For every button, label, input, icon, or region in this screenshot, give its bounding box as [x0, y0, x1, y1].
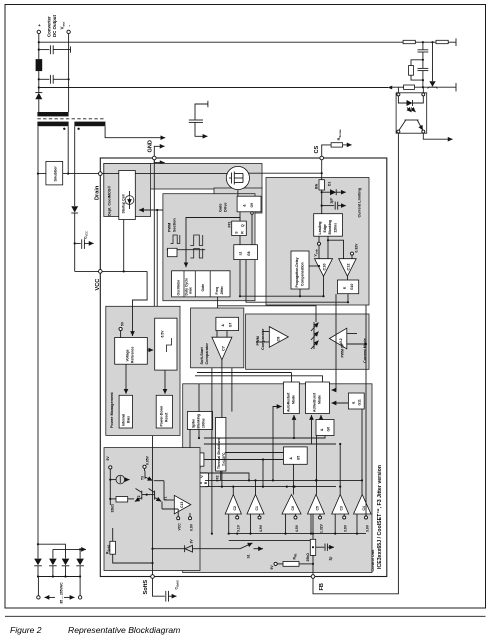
- flipflop FF2: [197, 473, 209, 487]
- capacitor Cy: [207, 101, 209, 107]
- svg-text:FF1: FF1: [228, 221, 232, 227]
- gate G2: [183, 453, 204, 466]
- IC package outline: [100, 158, 387, 577]
- wire FB internal: [312, 514, 314, 575]
- svg-text:Reset: Reset: [164, 412, 168, 422]
- svg-text:Leading: Leading: [318, 222, 322, 235]
- pin SoftS: [151, 575, 155, 579]
- section power management gray box: [106, 306, 180, 435]
- svg-text:≥1: ≥1: [239, 251, 243, 255]
- wire internal gnd rail: [153, 160, 155, 306]
- wire mirror bases: [142, 494, 155, 496]
- wire C3 up: [339, 444, 341, 495]
- svg-text:5V: 5V: [270, 565, 274, 570]
- svg-text:1pF: 1pF: [330, 198, 334, 204]
- diode D2 (aux rectifier): [71, 206, 78, 212]
- svg-text:C1: C1: [255, 506, 259, 510]
- capacitor CSoftS: [153, 578, 165, 596]
- capacitor 2p: [312, 546, 314, 548]
- svg-text:DC Output: DC Output: [52, 15, 57, 37]
- svg-text:Soft-Start: Soft-Start: [200, 346, 204, 364]
- svg-text:5V: 5V: [120, 321, 124, 326]
- svg-text:3.6V: 3.6V: [344, 524, 348, 532]
- wire softstart rails: [211, 368, 213, 534]
- svg-text:Mode: Mode: [318, 395, 322, 404]
- svg-text:C10: C10: [322, 264, 326, 271]
- gate G10: [338, 280, 359, 294]
- resistor 25k: [310, 539, 315, 555]
- svg-text:CSoftS: CSoftS: [175, 580, 180, 589]
- AC terminal N: [78, 596, 81, 599]
- svg-text:T>140°C: T>140°C: [222, 452, 226, 466]
- wire bus 438: [204, 436, 325, 439]
- svg-text:Figure 2: Figure 2: [10, 625, 42, 635]
- comparator C10: [315, 259, 333, 277]
- block voltage reference: [115, 338, 148, 365]
- transformer primary winding: [37, 122, 68, 127]
- svg-text:Blk: Blk: [315, 184, 319, 189]
- wire + column: [38, 34, 40, 60]
- comparator C13: [174, 495, 191, 513]
- svg-text:4.9V: 4.9V: [259, 524, 263, 532]
- section PWM comparator gray box: [246, 314, 369, 369]
- svg-text:Drive: Drive: [224, 203, 228, 213]
- wire GND arrow down: [154, 160, 164, 163]
- bridge diode DB4: [76, 559, 84, 566]
- svg-text:FB: FB: [319, 583, 325, 590]
- capacitor C3a: [422, 42, 424, 49]
- svg-text:Edge: Edge: [323, 224, 327, 232]
- wire GND arrow up: [154, 146, 164, 156]
- wire G10 out bus: [246, 260, 348, 303]
- comparator C6: [282, 495, 301, 515]
- svg-text:Converter: Converter: [46, 16, 51, 37]
- transistor T1: [154, 491, 156, 500]
- oscillator block row: [172, 271, 230, 297]
- wire bus 480: [205, 479, 362, 481]
- wire CS to Rsense: [322, 145, 331, 156]
- wire VR to 6.5V block: [147, 349, 153, 351]
- svg-text:Blanking: Blanking: [196, 414, 200, 428]
- svg-text:max: max: [189, 287, 193, 294]
- svg-text:SoftS: SoftS: [143, 580, 149, 595]
- capacitor Cout2: [39, 78, 50, 80]
- flipflop FF1: [232, 221, 247, 235]
- section control unit gray box: [183, 384, 372, 573]
- svg-text:Q: Q: [241, 224, 245, 227]
- svg-text:CVCC: CVCC: [84, 231, 89, 239]
- wire burst line: [332, 294, 337, 390]
- svg-text:Mode: Mode: [292, 395, 296, 404]
- wire up to autorestart: [273, 407, 282, 481]
- svg-text:PWM OP: PWM OP: [341, 343, 345, 358]
- bridge diode DB3: [62, 559, 70, 566]
- terminal + (DC output): [37, 30, 40, 33]
- wire 6.5V to PDR: [164, 370, 166, 394]
- capacitor C3b: [418, 67, 429, 69]
- AC terminal L: [37, 596, 40, 599]
- svg-text:Reference: Reference: [131, 346, 135, 363]
- svg-text:Power-Down: Power-Down: [159, 406, 163, 427]
- svg-text:Gate: Gate: [201, 284, 205, 292]
- resistor RFB: [277, 563, 283, 565]
- svg-text:G6: G6: [327, 427, 331, 432]
- wire softs internal: [152, 436, 154, 575]
- gate G7: [216, 317, 239, 330]
- wire snubber node: [38, 173, 100, 175]
- svg-text:Startup Cell: Startup Cell: [122, 194, 126, 213]
- wire G5 inputs: [225, 452, 284, 454]
- wire thermal to G2: [189, 429, 191, 453]
- comparator C12: [339, 259, 357, 277]
- wire C10 out bus: [240, 276, 324, 296]
- wire primary right to drain: [67, 126, 69, 173]
- svg-text:G8: G8: [247, 251, 251, 256]
- svg-text:Snubber: Snubber: [54, 166, 58, 182]
- wire top rail: [39, 41, 403, 43]
- transformer secondary winding: [37, 112, 68, 116]
- svg-text:3V: 3V: [190, 539, 194, 544]
- gate G5: [284, 447, 308, 464]
- svg-text:-: -: [67, 25, 72, 27]
- svg-text:AutoRestart: AutoRestart: [287, 392, 291, 412]
- pin Drain: [99, 172, 103, 176]
- zener 3V: [153, 548, 186, 550]
- wire osc sync down: [156, 210, 158, 318]
- node Vcsth: [318, 236, 320, 259]
- bridge rectifier top node: [37, 543, 39, 545]
- svg-text:G7: G7: [229, 323, 233, 328]
- wire activeburst out: [320, 415, 322, 420]
- wire startup to VCC: [123, 220, 125, 272]
- comparator C2: [225, 495, 241, 515]
- bridge diode DB2: [49, 559, 57, 566]
- svg-text:PWM: PWM: [168, 223, 172, 232]
- svg-text:0.32V: 0.32V: [354, 243, 358, 253]
- wire bus 540: [229, 539, 313, 541]
- opamp PWM OP: [329, 328, 346, 349]
- switch S1: [200, 548, 241, 550]
- footer rule: [5, 615, 486, 617]
- wire spike blanking down: [198, 429, 200, 438]
- node 0.32V: [351, 252, 354, 255]
- node 0.05V: [143, 465, 146, 468]
- resistor RSoftS: [110, 541, 116, 554]
- wire comparator bottom bus: [229, 533, 366, 535]
- wire drain internal: [102, 173, 227, 175]
- block autorestart mode: [284, 382, 300, 414]
- block UVLO 6.5V: [155, 318, 177, 370]
- node 5V (FB): [274, 562, 277, 565]
- svg-text:C13: C13: [180, 502, 184, 508]
- pin CS: [320, 156, 324, 160]
- wire softstart C7 out: [221, 360, 223, 418]
- svg-text:G10: G10: [350, 283, 354, 290]
- comparator C8: [269, 327, 288, 348]
- svg-text:C4: C4: [362, 506, 366, 510]
- svg-text:Propagation-Delay: Propagation-Delay: [295, 257, 299, 287]
- opto LED: [398, 96, 406, 103]
- svg-text:5V: 5V: [106, 456, 110, 461]
- comparator C5: [308, 495, 325, 515]
- svg-text:G9: G9: [250, 203, 254, 208]
- wire primary left to bridge: [37, 126, 39, 544]
- block thermal shutdown: [216, 418, 226, 472]
- comparator C1: [247, 495, 264, 515]
- svg-text:Freq: Freq: [215, 287, 219, 294]
- gate G12: [185, 475, 195, 486]
- block leading edge blanking: [314, 214, 343, 237]
- svg-text:Spike: Spike: [191, 419, 195, 428]
- svg-text:RSense: RSense: [337, 129, 342, 140]
- svg-text:Vout: Vout: [59, 22, 65, 30]
- svg-text:3.0V: 3.0V: [365, 524, 369, 532]
- inductor L1: [36, 59, 43, 71]
- svg-text:Drain: Drain: [95, 185, 101, 200]
- wire up to G5: [262, 460, 264, 487]
- wire G9-FF1-G8: [239, 212, 241, 221]
- node 5V (PM): [119, 327, 122, 330]
- wire osc to softstart: [217, 297, 219, 308]
- svg-text:Thermal Shutdown: Thermal Shutdown: [217, 438, 221, 469]
- gate G8: [234, 245, 258, 260]
- oscillator waveform glyphs: [170, 235, 179, 244]
- gate driver G9: [237, 196, 261, 212]
- svg-text:Oscillator: Oscillator: [177, 279, 181, 295]
- startup cell block: [123, 174, 125, 178]
- svg-text:0.05V: 0.05V: [146, 455, 150, 465]
- wire osc ramp to comparator: [218, 306, 316, 322]
- svg-text:0.9V: 0.9V: [190, 523, 194, 531]
- wire - column: [68, 34, 70, 112]
- svg-text:D1: D1: [327, 182, 331, 186]
- label 85..265VAC: [45, 596, 56, 598]
- svg-text:VCC: VCC: [95, 279, 101, 291]
- optocoupler U2: [396, 93, 427, 133]
- wire VCC rail: [75, 270, 147, 272]
- block propagation delay compensation: [291, 251, 309, 289]
- wire propdelay to C10: [309, 265, 319, 267]
- svg-text:ActiveBurst: ActiveBurst: [313, 392, 317, 412]
- resistor R1: [403, 40, 415, 43]
- wire G5 out: [293, 464, 295, 494]
- block power-down reset: [156, 395, 172, 428]
- svg-text:Representative Blockdiagram: Representative Blockdiagram: [68, 625, 180, 635]
- svg-text:G11: G11: [358, 399, 362, 405]
- PWM ramp resistor chain: [311, 323, 319, 332]
- resistor R2: [436, 40, 448, 43]
- svg-text:C12: C12: [346, 264, 350, 271]
- wire VR to internal bias: [125, 364, 127, 394]
- wire opto to CS sense arrow: [423, 133, 452, 139]
- snubber block: [46, 161, 63, 185]
- capacitor Cvcc: [74, 242, 76, 244]
- transistor T3: [144, 471, 146, 479]
- svg-text:G5: G5: [297, 456, 301, 461]
- wire CS internal: [321, 160, 323, 180]
- svg-text:C2: C2: [233, 506, 237, 510]
- svg-text:Depl. CoolMOS®: Depl. CoolMOS®: [108, 186, 112, 216]
- svg-text:Bias: Bias: [126, 416, 130, 423]
- terminal - (DC output): [67, 30, 70, 33]
- transistor T2: [141, 491, 143, 500]
- transformer core: [37, 118, 104, 120]
- wire FET source to CS (behind): [246, 172, 322, 174]
- wire aux left to VCC: [74, 126, 76, 206]
- block activeburst mode: [306, 382, 330, 414]
- pin VCC: [99, 270, 103, 274]
- section soft-start gray box: [191, 308, 244, 368]
- comparator C4: [354, 495, 372, 515]
- svg-text:S1: S1: [247, 554, 251, 558]
- svg-text:Internal: Internal: [121, 414, 125, 426]
- resistor 32k: [116, 497, 128, 502]
- wire startup control arrow: [139, 209, 163, 211]
- svg-text:2p: 2p: [329, 557, 333, 561]
- wire G6 out: [316, 436, 318, 495]
- svg-text:Control Unit: Control Unit: [371, 549, 375, 572]
- pin GND: [153, 156, 157, 160]
- transistor Q1 CoolMOS: [226, 166, 249, 189]
- comparator C3: [332, 495, 349, 515]
- wire g2 out: [192, 466, 194, 473]
- wire x366 rail: [365, 305, 367, 516]
- svg-text:Compensation: Compensation: [300, 262, 304, 286]
- wire FET gate: [237, 190, 239, 197]
- svg-text:25kΩ: 25kΩ: [306, 553, 310, 562]
- svg-text:32kΩ: 32kΩ: [110, 504, 114, 513]
- svg-text:6.5V: 6.5V: [160, 330, 164, 338]
- svg-text:Power Management: Power Management: [110, 392, 114, 428]
- svg-text:C3: C3: [340, 506, 344, 510]
- wire lower rail: [39, 87, 388, 89]
- node 5V (UVLO): [109, 466, 112, 469]
- current source I1: [110, 479, 116, 481]
- svg-text:+: +: [37, 24, 42, 27]
- svg-text:Voltage: Voltage: [126, 349, 130, 361]
- resistor Rsense: [331, 143, 343, 147]
- wire aux right arrow: [105, 126, 165, 138]
- wire autorestart out: [293, 415, 295, 438]
- svg-text:1.32V: 1.32V: [319, 523, 323, 533]
- svg-text:ICE3xxx65J / CoolSET™, F3 Jitt: ICE3xxx65J / CoolSET™, F3 Jitter version: [377, 465, 383, 569]
- resistor Blk: [319, 180, 324, 190]
- wire oscillator to FF1: [186, 218, 240, 268]
- section PWM gray box: [163, 194, 255, 301]
- wire pwm to autorestart: [197, 372, 292, 374]
- svg-text:Jitter: Jitter: [220, 286, 224, 295]
- wire feedback line: [313, 133, 398, 594]
- wire activeburst in: [332, 402, 349, 404]
- gate GD output bubble: [198, 467, 201, 470]
- svg-text:T3: T3: [141, 476, 145, 480]
- svg-text:3.1V: 3.1V: [237, 524, 241, 532]
- pin FB: [311, 575, 315, 579]
- svg-text:C6: C6: [291, 506, 295, 510]
- svg-text:CS: CS: [314, 145, 320, 153]
- svg-text:220ns: 220ns: [334, 223, 338, 233]
- svg-text:PWM: PWM: [256, 336, 260, 345]
- svg-text:85 ... 265VAC: 85 ... 265VAC: [60, 582, 64, 604]
- capacitor Cout1: [39, 49, 50, 51]
- svg-text:GND: GND: [148, 140, 154, 152]
- svg-text:4.5V: 4.5V: [295, 524, 299, 532]
- section current limiting gray box: [266, 178, 369, 306]
- svg-text:190ns: 190ns: [201, 418, 205, 428]
- svg-text:C5: C5: [316, 506, 320, 510]
- svg-text:C7: C7: [222, 346, 226, 351]
- gate G11: [348, 393, 364, 409]
- svg-text:Blanking: Blanking: [328, 220, 332, 234]
- svg-text:Comparator: Comparator: [205, 342, 209, 364]
- svg-text:Current Limiting: Current Limiting: [358, 187, 362, 217]
- wire bus 486: [205, 486, 336, 488]
- wire bus 444: [204, 443, 336, 445]
- svg-text:VCC: VCC: [178, 523, 182, 531]
- zener diode Z1: [432, 42, 434, 81]
- section UVLO gray box: [104, 448, 200, 571]
- gate G6: [316, 420, 334, 436]
- wire G11 out: [361, 409, 363, 495]
- wire VCC down to PM: [133, 271, 148, 336]
- bridge bottom bus: [38, 576, 80, 578]
- svg-text:Section: Section: [173, 218, 177, 232]
- diode D5: [35, 93, 42, 99]
- block spike blanking: [187, 412, 212, 430]
- svg-text:C8: C8: [277, 337, 281, 342]
- resistor R4: [404, 85, 415, 89]
- opto phototransistor: [405, 119, 419, 121]
- svg-text:Gate: Gate: [219, 204, 223, 212]
- wire LEB to C12: [327, 236, 329, 259]
- block internal bias: [119, 395, 132, 428]
- wire comparator out stubs: [232, 487, 234, 495]
- resistor R3 (vertical): [411, 60, 423, 66]
- transformer aux winding: [74, 122, 105, 127]
- section startup gray band: [104, 164, 262, 190]
- svg-text:T2: T2: [137, 495, 141, 499]
- bridge diode DB1: [34, 559, 42, 566]
- comparator C7: [212, 337, 232, 360]
